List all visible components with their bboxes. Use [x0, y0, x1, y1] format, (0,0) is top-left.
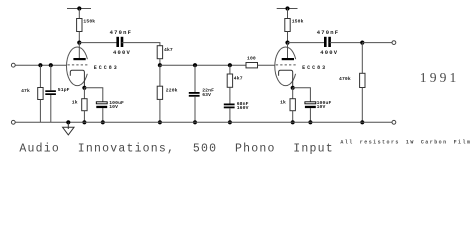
wire: input wire to grid V1	[15, 64, 66, 66]
wire: anode node to coupling cap	[79, 42, 117, 44]
svg-text:470nF: 470nF	[110, 29, 133, 36]
wire: HT to 150k stage 2	[287, 9, 289, 19]
wire: output node to terminal	[362, 42, 392, 44]
wire: 150k to anode node stage 2	[287, 32, 289, 43]
svg-text:470nF: 470nF	[317, 29, 340, 36]
wire: input node down to 47k	[39, 65, 41, 87]
wire: 100uF #2 to ground rail	[309, 108, 311, 122]
svg-text:150k: 150k	[83, 19, 95, 25]
resistor 47k (input load)	[38, 88, 43, 100]
terminal: ground left	[11, 120, 15, 124]
node: link node at 220k	[158, 63, 162, 67]
node: HT junction stage 2	[285, 6, 289, 10]
tube V1 anode plate	[73, 58, 85, 60]
capacitor 470nF 400V (stage 1 coupling)	[116, 37, 123, 47]
wire: 4k7 to link node	[159, 59, 161, 65]
node: HT junction stage 1	[77, 6, 81, 10]
svg-text:ECC83: ECC83	[302, 65, 327, 71]
resistor 150k (stage 2 anode load)	[285, 19, 290, 32]
svg-text:4k7: 4k7	[164, 47, 173, 53]
svg-text:ECC83: ECC83	[94, 65, 119, 71]
tube V1 cathode	[70, 70, 84, 88]
svg-text:400V: 400V	[320, 49, 338, 56]
resistor 4k7 (RIAA, series with 68nF)	[227, 74, 232, 87]
tube V2 ECC83 envelope	[275, 47, 297, 86]
resistor 1k (stage 1 cathode)	[82, 99, 87, 111]
node: 100uF #2 at rail	[308, 120, 312, 124]
wire: coupling cap to 4k7	[122, 43, 160, 46]
svg-text:10V: 10V	[317, 104, 326, 110]
wire: 4k7 to 68nF	[229, 87, 231, 103]
wire: HT supply stub stage 1	[67, 8, 91, 10]
wire: cathode node to 100uF #2	[293, 88, 311, 102]
svg-text:1k: 1k	[72, 100, 78, 106]
terminal: input	[11, 63, 15, 67]
resistor 150k (stage 1 anode load)	[77, 19, 82, 32]
svg-text:Audio Innovations, 500 Phono I: Audio Innovations, 500 Phono Input	[19, 143, 334, 156]
node: 22nF tap	[193, 63, 197, 67]
capacitor 100uF 10V (stage 1 cathode bypass)	[96, 102, 107, 108]
wire: 22nF to ground rail	[194, 97, 196, 123]
wire: 150k to anode node stage 1	[78, 32, 80, 43]
svg-text:63V: 63V	[202, 92, 211, 98]
svg-text:1k: 1k	[280, 100, 286, 106]
wire: anode node to output cap	[288, 42, 326, 44]
node: 470k at rail	[360, 120, 364, 124]
wire: 4k7 #2 drop	[229, 65, 231, 74]
svg-text:All resistors 1W Carbon Film: All resistors 1W Carbon Film	[340, 140, 471, 146]
node: 4k7/68nF tap	[228, 63, 232, 67]
resistor 220k (RIAA shunt)	[157, 86, 162, 99]
wire: 100R to grid of V2	[258, 64, 276, 66]
svg-text:160V: 160V	[237, 105, 249, 111]
tube V2 anode plate	[282, 58, 294, 60]
svg-text:1991: 1991	[420, 70, 460, 85]
resistor 4k7 (RIAA series, stage 1)	[157, 46, 162, 59]
svg-text:400V: 400V	[113, 49, 131, 56]
wire: output node down to 470k	[361, 43, 363, 74]
svg-text:47k: 47k	[21, 88, 30, 94]
node: V2 cathode node	[291, 86, 295, 90]
node: 100uF at rail	[101, 120, 105, 124]
wire: 1k #2 to ground rail	[292, 111, 294, 123]
wire: V2 anode lead	[287, 43, 289, 58]
wire: 68nF to ground rail	[229, 108, 231, 122]
svg-text:10V: 10V	[109, 104, 118, 110]
node: V1 cathode node	[82, 86, 86, 90]
ground	[63, 122, 74, 135]
node: 1k at rail	[82, 120, 86, 124]
wire: 51pF to ground rail	[50, 95, 52, 122]
svg-text:470k: 470k	[339, 76, 351, 82]
wire: HT supply stub stage 2	[277, 8, 298, 10]
svg-text:51pF: 51pF	[58, 87, 70, 93]
wire: 1k to ground rail	[83, 111, 85, 123]
svg-text:220k: 220k	[166, 87, 178, 93]
wire: 22nF drop	[194, 65, 196, 92]
node: 1k #2 at rail	[291, 120, 295, 124]
resistor 1k (stage 2 cathode)	[290, 99, 295, 111]
node: 47k tap on input	[38, 63, 42, 67]
tube V2 grid (dashed)	[276, 64, 297, 66]
wire: HT to 150k stage 1	[78, 9, 80, 19]
capacitor 51pF (input shunt)	[45, 90, 56, 95]
wire: cathode node to 1k #2	[292, 88, 294, 99]
node: 68nF at rail	[228, 120, 232, 124]
tube V1 grid (dashed)	[68, 64, 89, 66]
node: 220k at rail	[158, 120, 162, 124]
capacitor 68nF 160V (RIAA)	[224, 104, 235, 109]
wire: 100uF to ground rail	[102, 108, 104, 122]
wire: 470k to ground rail	[361, 88, 363, 123]
node: anode node stage 2	[285, 41, 289, 45]
capacitor 22nF 63V (RIAA)	[189, 92, 200, 97]
node: 22nF at rail	[193, 120, 197, 124]
wire: 47k to ground rail	[39, 100, 41, 123]
wire: cathode node to 100uF	[84, 88, 102, 102]
wire: ground rail	[15, 121, 392, 123]
node: anode node stage 1	[77, 41, 81, 45]
svg-text:150k: 150k	[292, 19, 304, 25]
wire: 220k to ground rail	[159, 99, 161, 122]
node: 51pF tap on input	[49, 63, 53, 67]
wire: link wire to 100R	[160, 64, 246, 66]
tube V1 ECC83 envelope	[67, 47, 89, 86]
capacitor 470nF 400V (output coupling)	[324, 37, 331, 47]
terminal: output	[392, 41, 396, 45]
capacitor 100uF 10V (stage 2 cathode bypass)	[305, 102, 316, 108]
svg-text:100: 100	[247, 56, 256, 62]
terminal: ground right	[392, 120, 396, 124]
wire: output cap to output node	[330, 42, 363, 44]
wire: V1 anode lead	[78, 43, 80, 58]
wire: cathode node to 1k	[83, 88, 85, 99]
resistor 470k (output load)	[360, 73, 365, 87]
resistor 100 (grid stopper)	[246, 63, 258, 68]
wire: 220k drop	[159, 65, 161, 86]
svg-text:4k7: 4k7	[234, 75, 243, 81]
tube V2 cathode	[279, 70, 293, 88]
wire: input node down to 51pF	[50, 65, 52, 90]
node: output node	[360, 41, 364, 45]
node: ground symbol junction	[66, 120, 70, 124]
